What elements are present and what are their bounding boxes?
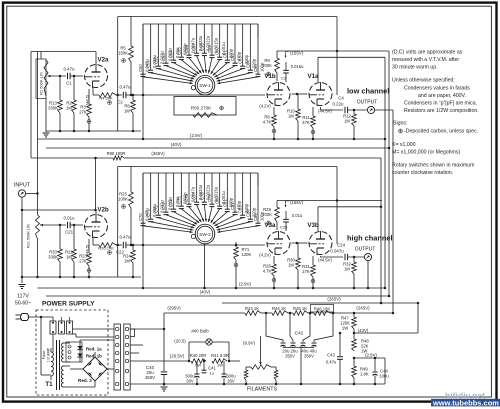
svg-text:1M: 1M bbox=[344, 119, 350, 124]
svg-text:R4 96K: R4 96K bbox=[99, 96, 113, 101]
svg-text:100u: 100u bbox=[379, 374, 389, 379]
svg-text:30V: 30V bbox=[186, 379, 194, 384]
svg-text:C42: C42 bbox=[295, 331, 304, 336]
capacitor bank C42 bbox=[266, 313, 283, 342]
terminal strip 1 bbox=[114, 324, 120, 390]
svg-text:(44.5V): (44.5V) bbox=[318, 258, 332, 263]
svg-text:V1b: V1b bbox=[264, 73, 276, 80]
svg-text:C81: C81 bbox=[222, 199, 227, 207]
svg-text:C24: C24 bbox=[337, 243, 346, 248]
svg-text:0.01u: 0.01u bbox=[292, 213, 303, 218]
strip tap wires bbox=[130, 344, 143, 346]
wire B+ box top (high) bbox=[118, 166, 337, 168]
R40/R41 loop bbox=[189, 341, 206, 343]
triode V1a bbox=[309, 83, 332, 106]
ground (117V input) bbox=[19, 284, 26, 286]
resistor R71 120K bbox=[235, 242, 237, 247]
svg-text:low channel: low channel bbox=[347, 87, 389, 96]
svg-text:(245V): (245V) bbox=[356, 306, 370, 311]
svg-text:R43 1K: R43 1K bbox=[245, 306, 259, 311]
capacitor C59 0.0015u (fan branch) bbox=[211, 24, 213, 55]
svg-text:C70: C70 bbox=[138, 213, 143, 221]
svg-text:C79: C79 bbox=[207, 194, 212, 202]
wire right feed 1 bbox=[380, 158, 382, 303]
svg-text:1M: 1M bbox=[288, 114, 294, 119]
svg-text:30 minute warm up.: 30 minute warm up. bbox=[392, 65, 438, 71]
filament wires bbox=[246, 366, 251, 368]
capacitor C41 1u bbox=[229, 360, 240, 362]
svg-text:C54: C54 bbox=[169, 50, 174, 58]
svg-text:C85: C85 bbox=[253, 213, 258, 221]
rectifier Red.1b bbox=[77, 354, 82, 358]
svg-text:(4.2V): (4.2V) bbox=[259, 104, 271, 109]
svg-text:K= x1,000: K= x1,000 bbox=[392, 142, 416, 148]
capacitor C63 330p (fan branch) bbox=[242, 24, 244, 66]
svg-text:C64: C64 bbox=[245, 60, 250, 68]
svg-text:1M: 1M bbox=[288, 263, 294, 268]
svg-text:C59: C59 bbox=[207, 45, 212, 53]
wire mains bbox=[28, 316, 54, 318]
capacitor C52 0.022u (fan branch) bbox=[157, 24, 159, 66]
bus (40V) high bbox=[46, 295, 389, 297]
svg-text:R40 20R: R40 20R bbox=[190, 353, 207, 358]
svg-text:1/2 AMP: 1/2 AMP bbox=[47, 347, 51, 362]
svg-text:FILAMENTS: FILAMENTS bbox=[247, 387, 278, 393]
svg-text:Resistors are 1/2W composition: Resistors are 1/2W composition. bbox=[404, 108, 479, 114]
capacitor C23 0.01u bbox=[285, 211, 287, 219]
bridge rectifier Red.2 bbox=[83, 357, 107, 381]
svg-text:Signs:: Signs: bbox=[393, 121, 407, 127]
svg-text:120K: 120K bbox=[242, 252, 252, 257]
svg-text:1W: 1W bbox=[217, 363, 223, 368]
svg-text:C63: C63 bbox=[238, 56, 243, 64]
svg-text:Red. 2: Red. 2 bbox=[78, 378, 92, 383]
wire B+ run (high) bbox=[277, 200, 382, 202]
wire 295V drop bbox=[163, 313, 165, 371]
wire ground bus mid channel bbox=[22, 276, 141, 278]
capacitor C57 0.0033u (fan branch) bbox=[196, 24, 198, 53]
capacitor C80 0.001u (fan branch) bbox=[219, 173, 221, 206]
svg-text:C52: C52 bbox=[153, 56, 158, 64]
node input junction bbox=[36, 192, 39, 195]
svg-text:350V: 350V bbox=[285, 354, 295, 359]
wire fan1 right edge bbox=[257, 24, 259, 38]
resistor R47 120K 1W bbox=[353, 313, 355, 317]
svg-text:M= x1,000,000 (or Megohms): M= x1,000,000 (or Megohms) bbox=[392, 150, 460, 156]
svg-text:1M: 1M bbox=[124, 259, 130, 264]
svg-text:C58: C58 bbox=[199, 43, 204, 51]
wire right feed 3 bbox=[388, 51, 390, 296]
svg-text:(43V): (43V) bbox=[358, 328, 369, 333]
capacitor C83 330p (fan branch) bbox=[242, 173, 244, 215]
svg-text:R45 1K: R45 1K bbox=[293, 306, 307, 311]
svg-text:C57: C57 bbox=[192, 43, 197, 51]
resistor R26 20K bbox=[92, 238, 94, 245]
wire top plate run y51 bbox=[31, 51, 96, 53]
capacitor C75 6800p (fan branch) bbox=[180, 173, 182, 206]
wire fan1 top bus bbox=[143, 23, 258, 25]
capacitor C1 0.47u bbox=[67, 73, 69, 80]
svg-text:C83: C83 bbox=[238, 205, 243, 213]
svg-text:0.01u: 0.01u bbox=[64, 216, 76, 221]
wire fan2 left edge bbox=[142, 173, 144, 288]
triode V3a bbox=[267, 232, 290, 255]
resistor R2 1M bbox=[73, 76, 75, 100]
wire V3a-V3b link bbox=[292, 242, 308, 244]
capacitor C78 0.0022u (fan branch) bbox=[203, 173, 205, 202]
svg-text:1.8K: 1.8K bbox=[360, 372, 369, 377]
svg-text:C71: C71 bbox=[146, 209, 151, 217]
svg-text:C73: C73 bbox=[161, 202, 166, 210]
svg-text:1M: 1M bbox=[66, 106, 72, 111]
resistor R12 1M bbox=[353, 110, 355, 114]
svg-text:1M: 1M bbox=[344, 267, 350, 272]
svg-text:counter clockwise rotation.: counter clockwise rotation. bbox=[392, 170, 453, 176]
svg-text:POWER SUPPLY: POWER SUPPLY bbox=[42, 301, 95, 308]
bus (40V) low bbox=[46, 147, 389, 149]
svg-text:1M: 1M bbox=[66, 255, 72, 260]
svg-text:(40V): (40V) bbox=[200, 290, 211, 295]
svg-text:100K: 100K bbox=[118, 197, 128, 202]
wire red1 top bbox=[79, 340, 81, 344]
potentiometer R1 500K LIN bbox=[36, 59, 46, 99]
svg-text:V2b: V2b bbox=[97, 207, 109, 214]
resistor R50 270K box bbox=[174, 97, 236, 116]
capacitor C71 0.033u (fan branch) bbox=[150, 173, 152, 219]
wire B+ box right edge (low) bbox=[336, 17, 338, 96]
svg-text:0.22u: 0.22u bbox=[333, 102, 345, 107]
power supply dashed box bbox=[36, 310, 108, 395]
output jack low bbox=[367, 106, 374, 113]
svg-text:4.7K: 4.7K bbox=[263, 120, 272, 125]
resistor R46 10K bbox=[314, 311, 330, 316]
svg-text:C21: C21 bbox=[65, 230, 74, 235]
filament slant resistor left bbox=[244, 370, 248, 380]
bus (2.9V) high bbox=[38, 287, 386, 289]
resistor R23 27K bbox=[88, 239, 90, 253]
svg-text:C23: C23 bbox=[280, 225, 288, 230]
svg-text:(2.9V): (2.9V) bbox=[190, 133, 202, 138]
capacitor C21 0.01u bbox=[67, 222, 69, 229]
filament slant resistor right bbox=[274, 370, 278, 380]
svg-text:T1: T1 bbox=[45, 381, 53, 388]
capacitor C76 0.0047u (fan branch) bbox=[188, 173, 190, 204]
capacitor C40 20u 450V bbox=[161, 371, 168, 373]
wire 43V bbox=[354, 332, 418, 334]
svg-text:0.47u: 0.47u bbox=[326, 360, 337, 365]
svg-text:C55: C55 bbox=[176, 47, 181, 55]
svg-text:C51: C51 bbox=[146, 60, 151, 68]
svg-text:mesured with a V.T.V.M. after: mesured with a V.T.V.M. after bbox=[392, 57, 459, 63]
svg-text:0.015u: 0.015u bbox=[291, 64, 304, 69]
svg-text:C4: C4 bbox=[338, 96, 344, 101]
capacitor C85 100p (fan branch) bbox=[257, 173, 259, 223]
svg-text:(155V): (155V) bbox=[290, 200, 304, 205]
capacitor C74 0.01u (fan branch) bbox=[173, 173, 175, 209]
svg-text:(4.2V): (4.2V) bbox=[259, 253, 271, 258]
svg-text:30V: 30V bbox=[227, 379, 235, 384]
bus ground bottom bbox=[130, 383, 385, 385]
resistor R29 100K bbox=[275, 207, 280, 222]
rotary switch SW-2 bbox=[195, 224, 215, 244]
capacitor C51 0.033u (fan branch) bbox=[150, 24, 152, 70]
svg-text:R46 10K: R46 10K bbox=[314, 306, 331, 311]
triode V2b bbox=[85, 215, 108, 238]
deposited-carbon mark R3 bbox=[87, 120, 91, 124]
capacitor C60 0.001u (fan branch) bbox=[219, 24, 221, 57]
svg-text:R50 270K: R50 270K bbox=[191, 106, 212, 111]
triode V2a bbox=[85, 65, 108, 88]
svg-text:Rotary switches shown in maxim: Rotary switches shown in maximum bbox=[392, 163, 474, 169]
wire fan2 top bus bbox=[143, 172, 258, 174]
svg-text:0.47u: 0.47u bbox=[120, 85, 132, 90]
svg-text:117V: 117V bbox=[17, 294, 29, 300]
svg-text:C78: C78 bbox=[199, 192, 204, 200]
wire output high down bbox=[367, 261, 369, 288]
strip feed wires bbox=[73, 328, 115, 330]
svg-text:100K: 100K bbox=[262, 63, 272, 68]
watermark bar bbox=[431, 399, 500, 407]
wire ground bus top channel bbox=[46, 130, 141, 132]
triode V3b bbox=[309, 232, 332, 255]
resistor R8 4.7K bbox=[273, 107, 275, 115]
svg-text:C65: C65 bbox=[253, 64, 258, 72]
resistor R49 1.8K bbox=[353, 358, 355, 366]
svg-text:SW-1: SW-1 bbox=[199, 83, 211, 88]
svg-text:C76: C76 bbox=[184, 194, 189, 202]
resistor R11 47K bbox=[312, 107, 314, 116]
svg-text:C50: C50 bbox=[138, 64, 143, 72]
svg-text:(155V): (155V) bbox=[290, 51, 304, 56]
terminal strip 2 bbox=[124, 324, 130, 390]
svg-text:V3b: V3b bbox=[307, 222, 319, 229]
svg-text:high channel: high channel bbox=[347, 234, 393, 243]
svg-text:1W: 1W bbox=[342, 326, 348, 331]
resistor R3 27K bbox=[88, 89, 90, 104]
wire V2b plate feed bbox=[95, 158, 97, 210]
svg-text:(8.9V): (8.9V) bbox=[243, 341, 255, 346]
svg-text:C53: C53 bbox=[161, 53, 166, 61]
rotary switch SW-1 bbox=[195, 75, 215, 95]
output jack high bbox=[364, 253, 371, 260]
capacitor C3 0.015u bbox=[285, 62, 287, 70]
svg-text:#40 Bulb: #40 Bulb bbox=[191, 329, 209, 334]
svg-text:(295V): (295V) bbox=[167, 306, 181, 311]
resistor R32 1M bbox=[353, 257, 355, 262]
svg-text:C2: C2 bbox=[117, 100, 123, 105]
resistor R28 4.7K bbox=[273, 256, 275, 264]
wire input bus vertical x31 bbox=[30, 52, 32, 159]
resistor R25 100K bbox=[130, 167, 132, 193]
svg-text:(D.C) volts are approximate as: (D.C) volts are approximate as bbox=[392, 50, 463, 56]
bus junction dots high bbox=[273, 287, 276, 290]
svg-text:450V: 450V bbox=[145, 375, 155, 380]
transformer T1 bbox=[51, 352, 53, 357]
resistor R90 100R bbox=[113, 156, 124, 160]
hum balance pot bbox=[260, 336, 262, 364]
svg-text:C74: C74 bbox=[169, 199, 174, 207]
resistor R30 1M bbox=[297, 243, 299, 258]
B+ rail bbox=[164, 312, 245, 314]
svg-text:C60: C60 bbox=[215, 47, 220, 55]
svg-text:(26.5V): (26.5V) bbox=[170, 354, 185, 359]
capacitor C55 6800p (fan branch) bbox=[180, 24, 182, 57]
capacitor C70 0.047u (fan branch) bbox=[142, 173, 144, 223]
wire V3b plate feed bbox=[318, 206, 382, 208]
capacitor C73 0.015u (fan branch) bbox=[165, 173, 167, 212]
svg-text:C75: C75 bbox=[176, 196, 181, 204]
bridge wires bbox=[70, 368, 83, 370]
resistor R44 1K bbox=[272, 311, 288, 316]
svg-text:(40V): (40V) bbox=[171, 142, 182, 147]
capacitor C84 220p (fan branch) bbox=[249, 173, 251, 219]
resistor R48 22K 1W bbox=[352, 339, 357, 351]
wire sw2 bottom bbox=[204, 244, 206, 288]
capacitor C53 0.015u (fan branch) bbox=[165, 24, 167, 63]
svg-text:Unless otherwise specified:: Unless otherwise specified: bbox=[392, 78, 455, 84]
svg-text:50-60~: 50-60~ bbox=[15, 301, 31, 307]
svg-text:V1a: V1a bbox=[307, 73, 319, 80]
triode V1b bbox=[267, 83, 290, 106]
wire grid node drops bbox=[59, 75, 62, 78]
wire fan1 left edge bbox=[142, 24, 144, 139]
wire mid grid drops bbox=[59, 224, 62, 227]
capacitor C58 0.0022u (fan branch) bbox=[203, 24, 205, 53]
svg-text:330K: 330K bbox=[48, 255, 58, 260]
svg-text:1u: 1u bbox=[210, 371, 214, 376]
svg-text:350V: 350V bbox=[304, 354, 314, 359]
bus junction dots low bbox=[273, 138, 276, 141]
capacitor C82 470p (fan branch) bbox=[234, 173, 236, 212]
capacitor C54 0.01u (fan branch) bbox=[173, 24, 175, 60]
resistor R9 100K bbox=[275, 58, 280, 73]
svg-text:Fuse: Fuse bbox=[42, 351, 46, 359]
svg-text:www.tubebbs.com: www.tubebbs.com bbox=[432, 398, 499, 407]
capacitor C81 680p (fan branch) bbox=[226, 173, 228, 209]
svg-text:Condensers in “p”[pF] are mica: Condensers in “p”[pF] are mica. bbox=[404, 101, 477, 107]
wire mid plate run bbox=[22, 209, 96, 211]
ground C40 bbox=[161, 386, 168, 388]
svg-text:(265V): (265V) bbox=[327, 297, 341, 302]
svg-text:27K: 27K bbox=[79, 259, 87, 264]
svg-text:27K: 27K bbox=[302, 269, 310, 274]
capacitor 500u 30V right bbox=[222, 373, 227, 375]
svg-text:C84: C84 bbox=[245, 209, 250, 217]
resistor R5 150K bbox=[130, 17, 132, 47]
svg-text:100K: 100K bbox=[262, 212, 272, 217]
resistor R22 1M bbox=[73, 225, 75, 249]
capacitor 500u 30V left bbox=[195, 373, 200, 375]
svg-text:R41 6.5R: R41 6.5R bbox=[211, 353, 229, 358]
svg-text:R1 500K LIN: R1 500K LIN bbox=[39, 72, 44, 95]
svg-text:V2a: V2a bbox=[97, 57, 109, 64]
svg-text:(2.9V): (2.9V) bbox=[365, 353, 377, 358]
capacitor C22 0.47u bbox=[122, 242, 124, 249]
wire B+ box left edge (low) bbox=[117, 17, 119, 132]
capacitor C43 0.47u bbox=[339, 333, 341, 356]
capacitor C65 100p (fan branch) bbox=[257, 24, 259, 74]
wire B+ run (low) bbox=[277, 50, 389, 52]
svg-text:OUTPUT: OUTPUT bbox=[357, 100, 378, 106]
svg-text:0.47u: 0.47u bbox=[64, 67, 76, 72]
capacitor C79 0.0015u (fan branch) bbox=[211, 173, 213, 204]
resistor R10 1M bbox=[297, 94, 299, 109]
wire mid left vertical bbox=[21, 276, 24, 279]
resistor R31 27K bbox=[312, 256, 314, 265]
svg-text:C56: C56 bbox=[184, 45, 189, 53]
svg-text:C61: C61 bbox=[222, 50, 227, 58]
ground (R1 bottom) bbox=[43, 132, 50, 134]
svg-text:27K: 27K bbox=[79, 110, 87, 115]
svg-text:C77: C77 bbox=[192, 192, 197, 200]
capacitor C2 0.47u bbox=[122, 92, 124, 99]
svg-text:(20.5): (20.5) bbox=[174, 339, 186, 344]
resistor R41 6.5R bbox=[212, 359, 227, 364]
wire right feed 2 bbox=[384, 57, 386, 288]
svg-text:C82: C82 bbox=[230, 202, 235, 210]
svg-text:330K: 330K bbox=[48, 106, 58, 111]
svg-text:(2.9V): (2.9V) bbox=[239, 282, 251, 287]
resistor R24 1M bbox=[132, 245, 134, 250]
svg-text:OUTPUT: OUTPUT bbox=[355, 247, 376, 253]
wire V1b-V1a link bbox=[292, 93, 308, 95]
capacitor C61 680p (fan branch) bbox=[226, 24, 228, 60]
svg-text:and are paper, 400V.: and are paper, 400V. bbox=[418, 93, 466, 99]
capacitor C72 0.022u (fan branch) bbox=[157, 173, 159, 215]
rectifier Red.1a bbox=[80, 346, 82, 348]
capacitor C44 100u bbox=[374, 358, 376, 371]
wire ps right bbox=[384, 358, 386, 384]
capacitor C64 220p (fan branch) bbox=[249, 24, 251, 70]
svg-text:-Deposited carbon, unless spec: -Deposited carbon, unless spec. bbox=[404, 129, 478, 135]
wire right feed 4 bbox=[375, 109, 393, 111]
deposited-carbon mark R23 bbox=[87, 269, 91, 273]
svg-text:C72: C72 bbox=[153, 205, 158, 213]
svg-text:INPUT: INPUT bbox=[14, 183, 31, 189]
capacitor C50 0.047u (fan branch) bbox=[142, 24, 144, 74]
input jack bbox=[18, 190, 25, 197]
strip jumper bbox=[130, 329, 134, 337]
svg-text:R26 20K: R26 20K bbox=[98, 246, 114, 251]
svg-text:SW-2: SW-2 bbox=[199, 232, 211, 237]
bus (2.9V) low bbox=[38, 138, 386, 140]
wire 2.9V ps bbox=[354, 357, 385, 359]
resistor R13 330K bbox=[59, 76, 61, 100]
wire V1a plate feed bbox=[318, 56, 385, 58]
svg-text:R90 100R: R90 100R bbox=[107, 151, 126, 156]
svg-text:5W: 5W bbox=[195, 363, 201, 368]
svg-text:C80: C80 bbox=[215, 196, 220, 204]
svg-text:4.7K: 4.7K bbox=[263, 269, 272, 274]
wire fan2 right edge bbox=[257, 173, 259, 187]
svg-text:0.047u: 0.047u bbox=[330, 249, 344, 254]
capacitor C56 0.0047u (fan branch) bbox=[188, 24, 190, 55]
wire B+ box top (low) bbox=[118, 16, 337, 18]
resistor R45 1K bbox=[293, 311, 308, 316]
svg-text:C43: C43 bbox=[327, 353, 335, 358]
resistor R4 96K bbox=[92, 88, 94, 95]
svg-text:R21 500K LIN: R21 500K LIN bbox=[27, 224, 31, 248]
svg-text:Red. 1a: Red. 1a bbox=[86, 347, 102, 352]
bus (265V) low bbox=[31, 157, 113, 159]
svg-text:0.47u: 0.47u bbox=[120, 235, 132, 240]
capacitor C62 470p (fan branch) bbox=[234, 24, 236, 63]
svg-text:V3a: V3a bbox=[264, 222, 276, 229]
svg-text:C62: C62 bbox=[230, 53, 235, 61]
capacitor C77 0.0033u (fan branch) bbox=[196, 173, 198, 202]
wire B+ box right edge (high) bbox=[336, 167, 338, 245]
AC plug bbox=[21, 314, 29, 321]
